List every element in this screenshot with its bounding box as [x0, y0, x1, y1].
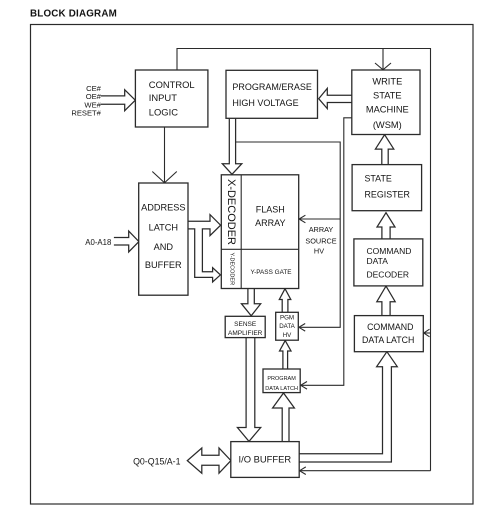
arrow I/O BUFFER right elbow up into COMMAND DATA LATCH — [299, 352, 397, 462]
svg-text:COMMAND: COMMAND — [367, 246, 412, 256]
arrow ADDRESS LATCH to X-DECODER with elbow to Y-DECODER — [188, 215, 221, 282]
svg-text:HIGH VOLTAGE: HIGH VOLTAGE — [232, 98, 298, 108]
label FLASH ARRAY — [255, 205, 285, 229]
svg-text:I/O BUFFER: I/O BUFFER — [238, 454, 291, 465]
svg-text:PROGRAM: PROGRAM — [267, 376, 296, 382]
arrow I/O BUFFER up into PROGRAM DATA LATCH — [273, 393, 295, 442]
svg-text:DECODER: DECODER — [367, 270, 410, 280]
svg-text:LOGIC: LOGIC — [149, 107, 178, 118]
svg-text:LATCH: LATCH — [149, 222, 178, 232]
svg-text:CONTROL: CONTROL — [149, 79, 195, 90]
svg-text:AMPLIFIER: AMPLIFIER — [228, 330, 263, 337]
svg-text:SENSE: SENSE — [234, 321, 257, 328]
box I/O BUFFER — [231, 442, 299, 478]
box SENSE AMPLIFIER — [225, 316, 265, 337]
svg-text:MACHINE: MACHINE — [366, 105, 409, 115]
svg-text:Q0-Q15/A-1: Q0-Q15/A-1 — [133, 457, 181, 467]
svg-text:BUFFER: BUFFER — [145, 260, 182, 270]
wire A from PROGRAM/ERASE HV shaft to FLASH ARRAY and PGM DATA HV — [236, 142, 341, 331]
svg-text:ADDRESS: ADDRESS — [141, 203, 185, 213]
svg-text:AND: AND — [154, 242, 174, 252]
svg-text:ARRAY: ARRAY — [255, 218, 285, 228]
svg-text:DATA LATCH: DATA LATCH — [265, 386, 298, 392]
arrow bidirectional Q0-Q15/A-1 to I/O BUFFER — [187, 448, 231, 473]
arrow PGM DATA HV up into Y-PASS GATE — [279, 289, 291, 313]
svg-text:RESET#: RESET# — [71, 109, 101, 118]
box ADDRESS LATCH AND BUFFER — [139, 183, 188, 295]
svg-text:Y-PASS GATE: Y-PASS GATE — [250, 269, 291, 276]
svg-text:PROGRAM/ERASE: PROGRAM/ERASE — [232, 82, 312, 92]
arrow PROGRAM DATA LATCH up into PGM DATA HV — [280, 341, 292, 369]
svg-text:X-DECODER: X-DECODER — [225, 179, 237, 245]
wire branch into WSM top — [375, 49, 391, 70]
svg-text:REGISTER: REGISTER — [365, 190, 410, 200]
svg-text:HV: HV — [283, 332, 292, 339]
svg-text:WRITE: WRITE — [372, 77, 402, 87]
arrow COMMAND DATA DECODER up into STATE REGISTER — [377, 213, 395, 239]
svg-text:STATE: STATE — [373, 91, 402, 101]
svg-text:HV: HV — [314, 247, 324, 256]
svg-text:(WSM): (WSM) — [373, 120, 402, 130]
svg-text:INPUT: INPUT — [149, 92, 177, 103]
svg-text:SOURCE: SOURCE — [305, 237, 336, 246]
svg-text:A0-A18: A0-A18 — [85, 238, 111, 247]
box STATE REGISTER — [352, 165, 422, 211]
svg-text:COMMAND: COMMAND — [367, 322, 413, 332]
arrow COMMAND DATA LATCH up into COMMAND DATA DECODER — [377, 286, 395, 315]
arrow A0-A18 into ADDRESS LATCH — [114, 231, 139, 252]
wire B from WSM left edge to PROGRAM DATA LATCH — [301, 118, 352, 389]
arrow SENSE AMPLIFIER down into I/O BUFFER — [237, 338, 260, 442]
wire A branch arrow into FLASH ARRAY right edge — [299, 215, 340, 223]
arrow WSM to PROGRAM/ERASE HIGH VOLTAGE — [319, 88, 352, 108]
label ARRAY SOURCE HV — [305, 225, 336, 256]
svg-text:BLOCK DIAGRAM: BLOCK DIAGRAM — [30, 9, 117, 20]
svg-text:PGM: PGM — [280, 315, 294, 322]
box PROGRAM/ERASE HIGH VOLTAGE — [226, 70, 318, 118]
wire rail bottom arrow into I/O BUFFER right edge — [300, 467, 431, 475]
svg-text:Y-DECODER: Y-DECODER — [228, 253, 234, 286]
arrow Y-PASS GATE down into SENSE AMPLIFIER — [241, 288, 260, 315]
arrow STATE REGISTER up into WSM — [375, 135, 393, 165]
box PGM DATA HV — [276, 312, 299, 340]
box WRITE STATE MACHINE (WSM) — [352, 70, 420, 135]
svg-text:FLASH: FLASH — [256, 205, 285, 215]
box COMMAND DATA LATCH — [354, 316, 423, 352]
arrow PROGRAM/ERASE HIGH VOLTAGE down into X-DECODER — [222, 119, 242, 175]
svg-text:STATE: STATE — [365, 174, 392, 184]
svg-text:DATA LATCH: DATA LATCH — [362, 335, 414, 345]
box COMMAND DATA DECODER — [354, 239, 423, 286]
arrow CE/OE/WE/RESET into CONTROL INPUT LOGIC — [101, 90, 136, 111]
wire top bus from CONTROL INPUT LOGIC to right side rail — [177, 49, 431, 471]
svg-text:DATA: DATA — [367, 256, 389, 266]
box flash array composite — [221, 175, 298, 289]
wire rail branch arrow into COMMAND DATA LATCH right edge — [424, 329, 431, 337]
wire CONTROL INPUT LOGIC to ADDRESS LATCH — [152, 127, 177, 183]
box CONTROL INPUT LOGIC — [135, 70, 208, 127]
svg-text:ARRAY: ARRAY — [309, 225, 334, 234]
svg-text:DATA: DATA — [279, 323, 295, 330]
box PROGRAM DATA LATCH — [263, 369, 300, 393]
